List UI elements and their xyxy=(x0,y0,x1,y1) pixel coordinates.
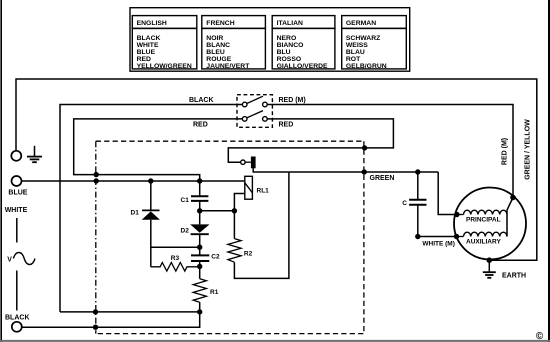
wire black rail (from switch, left side, down to module wire) xyxy=(60,105,243,312)
svg-text:R3: R3 xyxy=(171,255,180,262)
source V (ac sine symbol) xyxy=(7,253,35,265)
svg-text:BLAU: BLAU xyxy=(346,49,365,56)
svg-text:BLUE: BLUE xyxy=(8,190,27,197)
svg-text:WHITE: WHITE xyxy=(137,42,159,49)
svg-text:WHITE: WHITE xyxy=(5,207,28,214)
node green/module edge xyxy=(362,169,367,174)
svg-text:PRINCIPAL: PRINCIPAL xyxy=(466,216,501,223)
svg-text:D1: D1 xyxy=(131,209,140,216)
node coil/R2 top xyxy=(232,208,237,213)
svg-text:JAUNE/VERT: JAUNE/VERT xyxy=(206,63,250,70)
svg-text:RED: RED xyxy=(137,56,151,63)
node C1 top xyxy=(197,178,202,183)
wire supply upper segment xyxy=(16,218,18,243)
ground (motor earth symbol) xyxy=(483,260,496,278)
svg-text:BLANC: BLANC xyxy=(206,42,230,49)
node auxiliary left xyxy=(454,234,459,239)
motor M1 body xyxy=(454,188,526,260)
switch pole 1 (black) xyxy=(242,96,267,107)
mains switch dashed box xyxy=(237,95,272,128)
switch pole 2 (red) xyxy=(242,111,267,122)
svg-text:YELLOW/GREEN: YELLOW/GREEN xyxy=(137,63,192,70)
wire red loop from switch to relay contact xyxy=(228,119,393,162)
diode D1 xyxy=(131,181,160,267)
legend table outer box xyxy=(130,8,410,71)
svg-text:C1: C1 xyxy=(181,197,190,204)
wire white (M) xyxy=(418,236,457,238)
svg-text:RED (M): RED (M) xyxy=(279,97,306,104)
svg-text:NERO: NERO xyxy=(277,35,297,42)
node module edge lower xyxy=(94,178,99,183)
relay contact RL1 xyxy=(241,157,289,173)
black input terminal circle xyxy=(12,322,22,332)
svg-text:D2: D2 xyxy=(181,227,190,234)
svg-text:BLACK: BLACK xyxy=(5,315,30,322)
ground (input earth symbol) xyxy=(27,146,42,162)
legend column GERMAN xyxy=(342,16,407,71)
svg-text:BLEU: BLEU xyxy=(206,49,225,56)
resistor R1 xyxy=(193,267,218,312)
winding AUXILIARY xyxy=(457,232,508,245)
svg-text:RED: RED xyxy=(193,121,208,128)
wire module bottom 1 xyxy=(60,311,200,313)
wire green/yellow earth rail (top + right side down to motor) xyxy=(16,79,537,260)
legend column ITALIAN xyxy=(272,16,335,71)
svg-text:WHITE (M): WHITE (M) xyxy=(422,241,455,248)
winding PRINCIPAL xyxy=(457,210,507,223)
blue input terminal circle xyxy=(12,176,22,186)
capacitor C2 xyxy=(191,247,220,266)
node red loop / module edge xyxy=(362,145,367,150)
node C2 bottom / R3 / R1 junction xyxy=(197,264,202,269)
svg-text:RED: RED xyxy=(279,121,294,128)
node D2 bottom / C2 top xyxy=(197,245,202,250)
capacitor C (motor run capacitor) xyxy=(402,172,426,237)
svg-text:BLU: BLU xyxy=(277,49,291,56)
wire green (contact to motor area) xyxy=(289,171,438,173)
svg-text:GREEN / YELLOW: GREEN / YELLOW xyxy=(525,119,532,180)
svg-text:C2: C2 xyxy=(211,254,220,261)
svg-text:ROUGE: ROUGE xyxy=(206,56,231,63)
node green/capacitor C xyxy=(415,169,420,174)
wire green branch down to principal winding xyxy=(438,172,457,215)
wire windings right bus to red (M) node xyxy=(507,198,513,237)
svg-text:©: © xyxy=(536,331,544,342)
wire module bottom 2 (from black terminal) xyxy=(22,312,200,327)
node red (M) on motor xyxy=(510,195,516,201)
earth input terminal circle xyxy=(11,151,21,161)
resistor R2 xyxy=(228,172,289,278)
svg-text:BLUE: BLUE xyxy=(137,49,156,56)
svg-text:BLACK: BLACK xyxy=(189,97,214,104)
relay coil RL1 xyxy=(234,176,269,211)
svg-text:RL1: RL1 xyxy=(257,188,270,195)
wire blue (lower module wire to relay coil) xyxy=(22,180,245,182)
svg-text:GERMAN: GERMAN xyxy=(346,20,376,27)
svg-text:ENGLISH: ENGLISH xyxy=(137,20,167,27)
node module edge bottom 2 xyxy=(93,325,98,330)
svg-text:NOIR: NOIR xyxy=(206,35,223,42)
svg-text:WEISS: WEISS xyxy=(346,42,368,49)
svg-text:AUXILIARY: AUXILIARY xyxy=(466,239,501,246)
node R1 bottom xyxy=(197,309,202,314)
svg-text:GREEN: GREEN xyxy=(370,175,395,182)
wire red (M) from switch to motor xyxy=(267,105,513,198)
svg-text:R1: R1 xyxy=(210,289,219,296)
svg-text:RED (M): RED (M) xyxy=(502,138,509,165)
svg-text:ITALIAN: ITALIAN xyxy=(277,20,303,27)
node principal left xyxy=(454,212,459,217)
wire junction to relay coil branch xyxy=(200,210,235,212)
svg-text:GIALLO/VERDE: GIALLO/VERDE xyxy=(277,63,328,70)
svg-text:BLACK: BLACK xyxy=(137,35,161,42)
node white (M) junction xyxy=(415,234,420,239)
svg-text:C: C xyxy=(402,200,407,207)
node module edge bottom 1 xyxy=(93,309,98,314)
node motor earth bottom xyxy=(487,257,493,263)
diode D2 xyxy=(181,211,210,247)
svg-text:ROT: ROT xyxy=(346,56,361,63)
wire supply lower segment xyxy=(16,271,18,311)
wire red rail (from switch down into module upper wire) xyxy=(74,119,243,181)
module dashed box xyxy=(96,141,364,333)
capacitor C1 xyxy=(181,181,209,211)
svg-text:SCHWARZ: SCHWARZ xyxy=(346,35,380,42)
node module edge upper xyxy=(94,172,99,177)
resistor R3 xyxy=(151,255,200,271)
wire D2 bottom junction to D1 branch xyxy=(151,246,200,248)
node C1/D2/coil junction xyxy=(197,208,202,213)
svg-text:R2: R2 xyxy=(244,251,253,258)
svg-text:EARTH: EARTH xyxy=(502,273,526,280)
legend column ENGLISH xyxy=(132,16,197,71)
svg-text:ROSSO: ROSSO xyxy=(277,56,302,63)
node D1 top xyxy=(148,178,153,183)
svg-text:V: V xyxy=(7,256,12,263)
legend column FRENCH xyxy=(202,16,266,71)
svg-text:FRENCH: FRENCH xyxy=(206,20,234,27)
svg-text:GELB/GRUN: GELB/GRUN xyxy=(346,63,387,70)
svg-text:BIANCO: BIANCO xyxy=(277,42,304,49)
